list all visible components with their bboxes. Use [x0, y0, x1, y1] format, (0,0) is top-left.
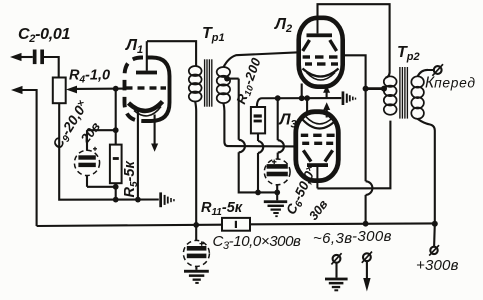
ground cathode rail: [159, 192, 174, 207]
capacitor C2: [10, 50, 59, 78]
node screen on rail: [363, 221, 369, 227]
svg-text:С3-10,0×300в: С3-10,0×300в: [213, 233, 302, 252]
svg-text:~6,3в: ~6,3в: [313, 230, 352, 247]
node R5 bottom: [113, 184, 119, 190]
node R5 top: [113, 127, 119, 133]
svg-text:Кперед: Кперед: [425, 75, 476, 92]
resistor R5: [110, 145, 122, 200]
svg-text:R11-5к: R11-5к: [201, 200, 243, 218]
transformer Tr2: [384, 67, 435, 223]
wire bottom rail left: [37, 225, 222, 226]
wire L3 cathode: [306, 98, 308, 113]
svg-text:Л1: Л1: [125, 37, 143, 56]
pentode L2: [299, 18, 343, 87]
wire L1 anode to Tr1: [147, 41, 196, 66]
svg-text:-300в: -300в: [352, 228, 392, 245]
wire arrow output left: [11, 86, 37, 226]
node ground rail junctions: [113, 197, 119, 203]
wire L3 heater arrow: [323, 102, 330, 117]
node Tr2 tap: [381, 86, 387, 92]
node L2 cathode junction: [299, 95, 305, 101]
terminal K pered: [432, 64, 443, 76]
svg-text:+300в: +300в: [416, 257, 459, 274]
svg-text:30в: 30в: [306, 197, 331, 223]
wire R4 bottom to ground rail: [59, 103, 159, 200]
ground under C3: [184, 270, 209, 284]
ground under 6,3v terminal: [325, 278, 348, 292]
wire bottom rail right: [250, 222, 435, 225]
pentode L3: [296, 112, 339, 189]
wire Tr1 secondary bottom to L3 grid: [223, 103, 296, 146]
svg-text:Л3: Л3: [279, 112, 297, 131]
ground under C6: [264, 192, 287, 217]
svg-text:Тр1: Тр1: [202, 25, 225, 44]
node C6 bottom: [274, 190, 280, 196]
node L3 cathode junction: [304, 95, 310, 101]
capacitor C9: [74, 147, 115, 187]
wire L1 cathode down: [137, 112, 139, 200]
wire Tr1 tap to ground line: [226, 79, 277, 193]
wire grid junction down to R5/C9: [87, 89, 116, 151]
resistor R4: [53, 78, 66, 104]
ground cathode line right: [342, 91, 357, 105]
node C6 top junction: [275, 95, 281, 101]
wire L2 screen to Tr2 tap and rail: [343, 55, 373, 223]
svg-text:20в: 20в: [77, 119, 103, 147]
wire cathode line: [257, 98, 341, 107]
label C6-50,0x30v: [283, 163, 331, 222]
wire L2 heater arrow: [323, 85, 330, 98]
capacitor C3: [183, 225, 209, 270]
transformer Tr1: [189, 59, 230, 225]
wire L1 heater arrow: [151, 115, 158, 152]
label C9-20,0x20v: [49, 98, 103, 153]
wire L3 anode to Tr2 primary bottom: [317, 121, 390, 189]
svg-text:Л2: Л2: [274, 16, 292, 35]
wire Tr1 secondary top to L2 grid: [223, 52, 299, 67]
node screen junction: [363, 86, 369, 92]
node grid junction: [113, 86, 119, 92]
capacitor C6: [264, 98, 290, 192]
node Tr1 tap: [224, 76, 230, 82]
terminal +300v: [429, 224, 439, 256]
svg-text:R4-1,0: R4-1,0: [69, 68, 110, 86]
terminal -300v with arrow: [362, 252, 372, 292]
triode L1: [125, 41, 170, 121]
resistor R10: [251, 107, 265, 192]
wire grid of L1 to R4 wiper arrow: [66, 86, 127, 94]
node rail junction Tr1: [193, 222, 199, 228]
node rail right corner: [432, 221, 438, 227]
resistor R11: [222, 218, 250, 231]
node R10 bottom: [255, 190, 261, 196]
wire L2 cathode: [301, 84, 303, 99]
wire tap to Tr2 coil: [366, 87, 384, 90]
wire L2 anode to Tr2 primary top: [318, 4, 390, 78]
svg-text:Тр2: Тр2: [397, 44, 420, 63]
terminal 6,3v with ground: [331, 253, 341, 277]
svg-text:С2-0,01: С2-0,01: [18, 26, 70, 45]
